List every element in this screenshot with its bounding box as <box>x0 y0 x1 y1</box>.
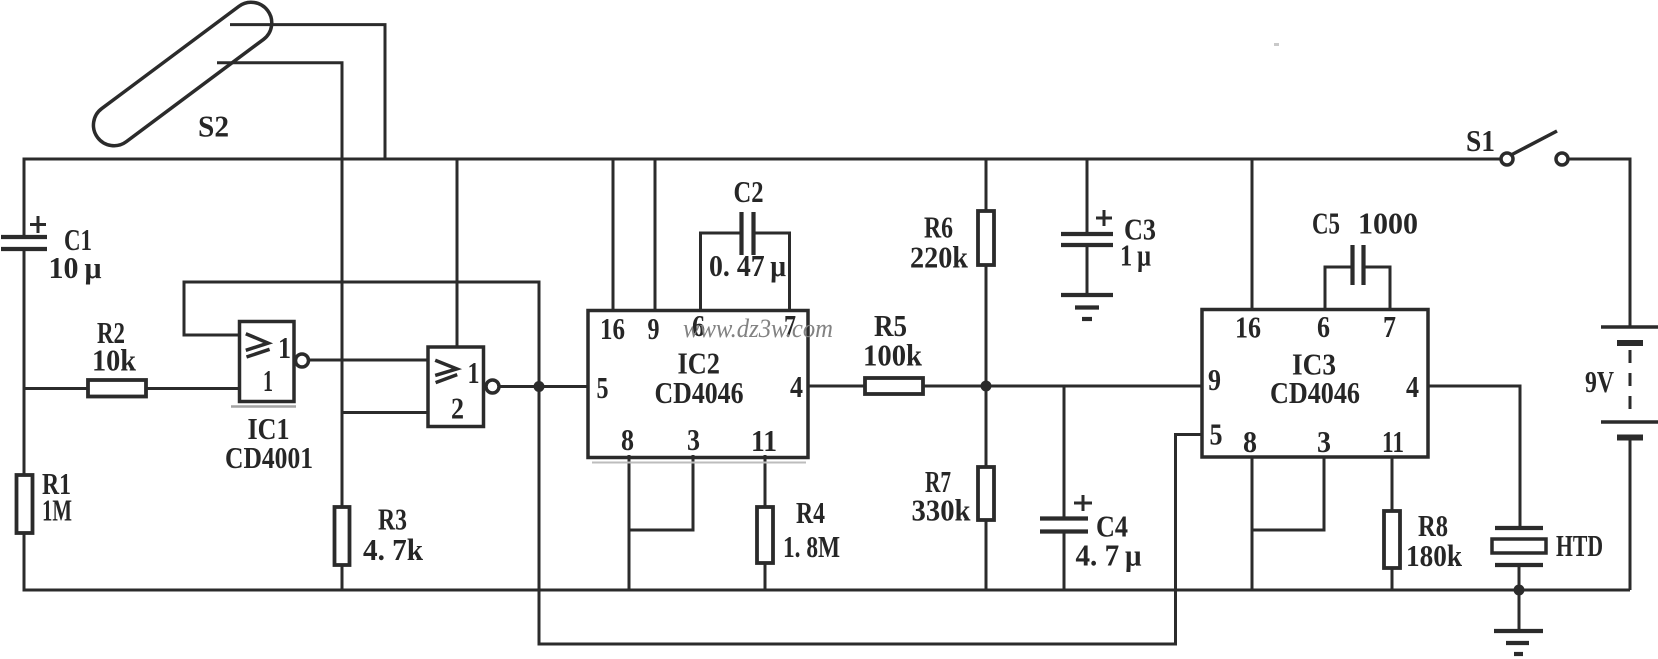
wire gate1 output <box>309 359 429 362</box>
svg-text:1000: 1000 <box>1358 206 1418 241</box>
logic gate IC1 unit 1 <box>225 322 313 476</box>
capacitor C5 <box>1312 206 1418 311</box>
capacitor C4 <box>1040 386 1142 590</box>
resistor R4 <box>757 455 840 590</box>
svg-text:8: 8 <box>621 422 634 457</box>
svg-text:9: 9 <box>648 311 660 346</box>
resistor R7 <box>912 386 995 590</box>
svg-text:CD4001: CD4001 <box>225 440 313 475</box>
wire IC2 pin9 to rail <box>654 159 657 310</box>
scan artifact under IC2 <box>592 462 806 464</box>
svg-text:11: 11 <box>1382 424 1404 459</box>
svg-text:C2: C2 <box>734 174 764 209</box>
resistor R3 <box>335 502 424 591</box>
svg-text:16: 16 <box>1235 310 1261 345</box>
wire IC2 pin16 to rail <box>612 159 615 310</box>
node R5 R6 R7 junction <box>981 381 992 392</box>
svg-text:11: 11 <box>751 423 777 458</box>
wire gate1 feedback <box>184 282 539 387</box>
wire IC3 pin4 to HTD <box>1428 386 1520 528</box>
svg-text:HTD: HTD <box>1556 528 1603 563</box>
wire S1 to right rail <box>1569 159 1631 327</box>
svg-text:330k: 330k <box>912 493 972 528</box>
svg-text:7: 7 <box>1383 309 1396 344</box>
svg-text:3: 3 <box>687 422 700 457</box>
scan artifact under gate1 <box>231 405 296 408</box>
svg-text:0. 47 μ: 0. 47 μ <box>709 248 786 283</box>
wire junction to IC3 pin9 <box>986 385 1202 388</box>
node HTD ground junction <box>1514 585 1525 596</box>
wire S2 lower lead <box>217 63 342 507</box>
svg-text:4: 4 <box>1406 369 1419 404</box>
svg-text:100k: 100k <box>863 338 923 373</box>
resistor R2 <box>24 315 240 397</box>
battery 9V <box>1585 327 1658 590</box>
svg-text:R4: R4 <box>796 495 825 530</box>
capacitor C2 <box>701 174 790 310</box>
wire gate2 output to IC2 pin5 <box>500 385 588 388</box>
resistor R8 <box>1384 456 1463 590</box>
node gate2 output junction <box>534 381 545 392</box>
svg-text:1: 1 <box>263 363 273 398</box>
svg-text:www.dz3w.com: www.dz3w.com <box>683 314 833 343</box>
wire gate2 lower input <box>342 411 428 414</box>
wire IC3 pin8 <box>1251 456 1254 590</box>
svg-text:5: 5 <box>597 370 609 405</box>
buzzer HTD <box>1492 528 1603 590</box>
wire IC2 pin4 to R5 <box>808 385 865 388</box>
switch S1 <box>1466 123 1568 165</box>
wire IC3 pin16 to rail <box>1251 159 1254 310</box>
svg-text:16: 16 <box>600 311 625 346</box>
svg-text:CD4046: CD4046 <box>1270 375 1360 410</box>
svg-text:220k: 220k <box>910 240 969 275</box>
svg-text:6: 6 <box>1317 309 1330 344</box>
svg-text:1M: 1M <box>42 493 72 528</box>
IC U3 CD4046 <box>1202 309 1428 459</box>
wire IC2 pin3 <box>629 455 693 530</box>
svg-text:CD4046: CD4046 <box>655 375 744 410</box>
svg-text:C5: C5 <box>1312 206 1340 241</box>
wire left rail below R1 <box>23 533 26 592</box>
wire left rail upper <box>23 158 26 238</box>
svg-text:10k: 10k <box>92 343 137 378</box>
wire IC3 pin3 <box>1252 456 1324 530</box>
svg-text:2: 2 <box>451 391 464 426</box>
svg-text:S1: S1 <box>1466 123 1495 158</box>
resistor R5 <box>863 308 986 394</box>
IC U2 CD4046 <box>588 308 808 458</box>
ground under HTD <box>1494 590 1543 654</box>
wire feedback to IC3 pin5 <box>539 386 1202 644</box>
capacitor C3 <box>1061 159 1156 295</box>
svg-text:8: 8 <box>1243 424 1257 459</box>
wire left rail lower <box>23 249 26 475</box>
svg-text:1: 1 <box>278 330 291 365</box>
svg-text:1 μ: 1 μ <box>1120 238 1151 273</box>
svg-text:5: 5 <box>1210 417 1223 452</box>
svg-text:3: 3 <box>1317 424 1331 459</box>
resistor R1 <box>17 466 73 533</box>
svg-text:4: 4 <box>790 369 803 404</box>
wire S2 top lead <box>230 25 385 159</box>
wire top rail <box>24 158 1501 161</box>
svg-text:9: 9 <box>1208 362 1221 397</box>
capacitor C1 <box>1 216 102 285</box>
svg-text:S2: S2 <box>198 109 229 144</box>
resistor R6 <box>910 159 994 386</box>
svg-text:1: 1 <box>468 355 480 390</box>
svg-text:4. 7k: 4. 7k <box>363 532 424 567</box>
svg-text:4. 7 μ: 4. 7 μ <box>1076 538 1142 573</box>
wire gate2 top input from rail <box>456 159 459 347</box>
wire IC2 pin8 <box>628 455 631 590</box>
svg-text:1. 8M: 1. 8M <box>783 529 840 564</box>
svg-text:9V: 9V <box>1585 364 1614 399</box>
logic gate IC1 unit 2 <box>428 347 499 427</box>
ground under C3 <box>1061 295 1113 319</box>
switch S2 <box>85 0 280 154</box>
svg-text:10 μ: 10 μ <box>49 250 102 285</box>
wire bottom rail <box>24 589 1630 592</box>
svg-text:180k: 180k <box>1406 538 1463 573</box>
stray mark <box>1274 43 1279 46</box>
